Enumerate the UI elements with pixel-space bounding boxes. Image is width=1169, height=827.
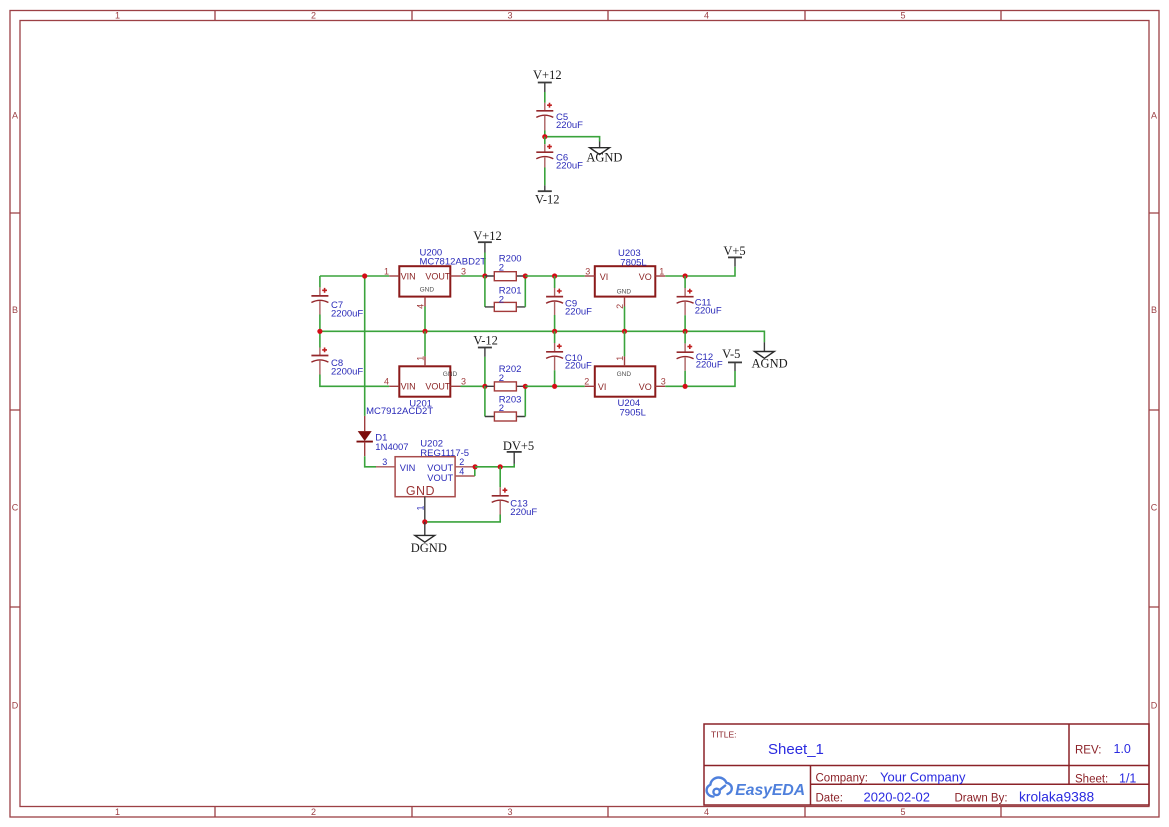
resistor R201 xyxy=(485,285,525,311)
svg-text:Your Company: Your Company xyxy=(880,770,966,785)
svg-text:1: 1 xyxy=(115,11,120,21)
svg-text:MC7912ACD2T: MC7912ACD2T xyxy=(366,406,433,417)
wire VIN node to D1 xyxy=(364,276,366,416)
junction R left xyxy=(482,273,487,278)
ground AGND (top) xyxy=(586,142,622,165)
svg-text:3: 3 xyxy=(661,377,666,387)
svg-text:220uF: 220uF xyxy=(510,507,537,518)
svg-text:220uF: 220uF xyxy=(556,161,583,172)
junction C10 bottom xyxy=(552,384,557,389)
svg-text:VIN: VIN xyxy=(401,382,416,392)
junction bus C11 xyxy=(683,329,688,334)
capacitor C5 xyxy=(536,103,583,137)
svg-text:V-5: V-5 xyxy=(722,347,740,361)
wire left column top horizontal xyxy=(320,275,389,277)
wire C11 to bus xyxy=(684,315,686,331)
U200 pin 1 xyxy=(384,266,399,276)
wire pin4 to pin2 node xyxy=(474,467,476,476)
svg-text:C: C xyxy=(1151,503,1158,513)
regulator U202 xyxy=(395,438,469,498)
wire U204 VO to V-5 xyxy=(665,371,735,386)
wire C9 to bus xyxy=(554,315,556,331)
svg-text:3: 3 xyxy=(382,457,387,467)
svg-text:Sheet:: Sheet: xyxy=(1075,774,1108,786)
svg-text:A: A xyxy=(1151,110,1157,120)
wire V-12 drop xyxy=(484,357,486,386)
svg-text:Company:: Company: xyxy=(816,773,868,785)
svg-text:2: 2 xyxy=(311,11,316,21)
svg-text:AGND: AGND xyxy=(752,357,788,371)
junction at C5/C6 xyxy=(542,134,547,139)
svg-text:Drawn By:: Drawn By: xyxy=(955,793,1008,805)
power flag V+5 xyxy=(723,244,745,267)
capacitor C10 xyxy=(546,331,592,371)
svg-text:5: 5 xyxy=(900,807,905,817)
U204 pin 1 xyxy=(615,356,625,367)
svg-text:2: 2 xyxy=(311,807,316,817)
U201 pin 3 xyxy=(450,377,466,387)
svg-text:Sheet_1: Sheet_1 xyxy=(768,741,824,758)
capacitor C11 xyxy=(677,276,722,316)
svg-text:VO: VO xyxy=(639,382,652,392)
svg-text:1.0: 1.0 xyxy=(1114,742,1131,756)
svg-text:MC7812ABD2T: MC7812ABD2T xyxy=(420,256,487,267)
junction bus C7 xyxy=(317,329,322,334)
junction U202 VOUT xyxy=(473,464,478,469)
power flag V+12 (top) xyxy=(533,68,562,92)
resistor R203 xyxy=(485,395,525,421)
diode D1 xyxy=(357,416,409,456)
power flag V+12 (mid) xyxy=(473,229,502,253)
wire R203 right vertical xyxy=(524,386,526,416)
wire C6 to V-12 xyxy=(544,168,546,186)
wire R to U203 xyxy=(525,275,585,277)
svg-text:VOUT: VOUT xyxy=(427,473,453,483)
junction R202 right xyxy=(523,384,528,389)
EasyEDA logo cloud xyxy=(707,778,732,797)
svg-text:VIN: VIN xyxy=(401,271,416,281)
U204 pin 2 xyxy=(584,377,595,387)
svg-text:5: 5 xyxy=(900,11,905,21)
junction bus C9 xyxy=(552,329,557,334)
svg-text:7805L: 7805L xyxy=(620,257,646,268)
wire C10 to bottom row xyxy=(554,370,556,386)
svg-text:D: D xyxy=(1151,700,1158,710)
junction bus U203 GND xyxy=(622,329,627,334)
wire C12 to bottom row xyxy=(684,371,686,387)
svg-text:220uF: 220uF xyxy=(695,305,722,316)
wire C7 to bus xyxy=(319,315,321,332)
svg-text:2: 2 xyxy=(584,377,589,387)
capacitor C9 xyxy=(546,276,592,317)
svg-text:3: 3 xyxy=(461,266,466,276)
resistor R200 xyxy=(485,253,525,280)
junction C12 bottom xyxy=(683,384,688,389)
wire left column vertical above C7 xyxy=(319,276,321,287)
svg-text:GND: GND xyxy=(420,286,435,293)
capacitor C8 xyxy=(311,348,363,378)
junction DGND xyxy=(422,519,427,524)
svg-text:2: 2 xyxy=(499,295,504,306)
U202 pin 4 xyxy=(455,466,475,476)
svg-text:VIN: VIN xyxy=(400,463,416,473)
svg-text:3: 3 xyxy=(585,266,590,276)
svg-text:2: 2 xyxy=(499,373,504,384)
frame column ticks bottom xyxy=(215,807,1001,818)
wire U201 VOUT to R202 junction xyxy=(461,385,485,387)
wire U200 GND to bus xyxy=(424,307,426,332)
svg-text:4: 4 xyxy=(459,466,464,476)
wire C5 to junction xyxy=(544,131,546,137)
U200 pin 3 xyxy=(450,266,466,276)
svg-text:REV:: REV: xyxy=(1075,745,1101,757)
svg-text:1/1: 1/1 xyxy=(1119,772,1136,786)
junction bus U200 GND xyxy=(422,329,427,334)
U202 pin 1 GND xyxy=(415,497,425,522)
svg-text:220uF: 220uF xyxy=(696,360,723,371)
svg-text:A: A xyxy=(12,110,18,120)
wire V+12 to C5 xyxy=(544,92,546,103)
svg-text:V-12: V-12 xyxy=(473,334,498,348)
wire U200 VOUT to R junction xyxy=(461,275,485,277)
power flag V-12 (top chain) xyxy=(535,185,560,206)
ground DGND xyxy=(411,522,447,555)
wire AGND bus xyxy=(320,331,765,342)
U201 pin 1 xyxy=(416,356,426,367)
svg-text:D: D xyxy=(12,700,19,710)
svg-text:1N4007: 1N4007 xyxy=(375,442,408,453)
capacitor C13 xyxy=(492,467,538,518)
svg-text:220uF: 220uF xyxy=(565,360,592,371)
regulator U200 xyxy=(399,248,486,297)
U200 pin 4 xyxy=(416,297,426,309)
wire R202 to U204 xyxy=(525,385,585,387)
regulator U203 xyxy=(595,248,656,296)
title block title row divider xyxy=(704,765,1149,767)
svg-text:GND: GND xyxy=(617,371,632,378)
frame column ticks top xyxy=(215,11,1001,21)
svg-text:V+12: V+12 xyxy=(533,68,562,82)
svg-text:4: 4 xyxy=(384,377,389,387)
wire D1 to U202 VIN xyxy=(365,456,376,467)
svg-text:VI: VI xyxy=(600,272,609,282)
wire C8 to bottom row xyxy=(320,375,389,387)
wire VOUT node to DV+5 xyxy=(475,464,514,467)
wire U203 VO to V+5 xyxy=(665,267,735,276)
wire R203 left vertical xyxy=(484,386,486,416)
regulator U204 xyxy=(595,366,656,418)
junction U200 VIN xyxy=(362,273,367,278)
svg-text:GND: GND xyxy=(617,289,632,296)
wire junction to C6 xyxy=(544,137,546,145)
wire U203 GND to bus xyxy=(624,307,626,332)
svg-text:GND: GND xyxy=(443,371,458,378)
svg-text:AGND: AGND xyxy=(586,151,622,165)
svg-text:V-12: V-12 xyxy=(535,193,560,207)
U204 pin 3 xyxy=(655,377,666,387)
svg-text:2200uF: 2200uF xyxy=(331,309,363,320)
U203 pin 3 xyxy=(585,266,595,276)
svg-text:B: B xyxy=(1151,305,1157,315)
svg-text:TITLE:: TITLE: xyxy=(711,730,737,740)
svg-text:3: 3 xyxy=(461,377,466,387)
svg-text:1: 1 xyxy=(384,266,389,276)
svg-text:1: 1 xyxy=(115,807,120,817)
capacitor C12 xyxy=(677,331,723,371)
svg-text:3: 3 xyxy=(507,11,512,21)
svg-text:2020-02-02: 2020-02-02 xyxy=(864,790,931,805)
svg-text:2: 2 xyxy=(499,403,504,414)
capacitor C7 xyxy=(311,287,363,319)
svg-text:V+12: V+12 xyxy=(473,229,502,243)
svg-text:GND: GND xyxy=(406,484,435,498)
wire bus to C8 xyxy=(319,331,321,347)
svg-text:VOUT: VOUT xyxy=(427,463,453,473)
ground AGND (right) xyxy=(752,342,788,370)
svg-text:7905L: 7905L xyxy=(620,408,646,419)
svg-text:B: B xyxy=(12,305,18,315)
svg-text:VI: VI xyxy=(598,382,607,392)
svg-text:220uF: 220uF xyxy=(565,306,592,317)
junction C9 top xyxy=(552,273,557,278)
svg-text:1: 1 xyxy=(615,356,625,361)
svg-text:VOUT: VOUT xyxy=(425,382,451,392)
capacitor C6 xyxy=(536,144,583,171)
svg-text:krolaka9388: krolaka9388 xyxy=(1019,790,1094,805)
title block company/date divider xyxy=(811,783,1150,785)
wire C13 to DGND node xyxy=(425,515,500,522)
wire R201 right vertical xyxy=(524,276,526,307)
U201 pin 4 xyxy=(384,377,399,387)
U202 pin 2 xyxy=(455,457,473,467)
svg-text:1: 1 xyxy=(415,505,425,510)
svg-text:DV+5: DV+5 xyxy=(503,439,534,453)
U202 pin 3 xyxy=(376,457,395,467)
svg-text:2200uF: 2200uF xyxy=(331,367,363,378)
wire bus to U204 GND xyxy=(624,331,626,356)
U203 pin 2 xyxy=(615,297,625,309)
title block outline xyxy=(704,724,1149,805)
junction C11 top xyxy=(683,273,688,278)
frame row ticks left xyxy=(10,213,20,607)
resistor R202 xyxy=(485,364,525,391)
svg-text:VO: VO xyxy=(639,272,652,282)
svg-text:V+5: V+5 xyxy=(723,244,745,258)
junction R202 left xyxy=(482,384,487,389)
junction R right xyxy=(523,273,528,278)
svg-text:4: 4 xyxy=(704,11,709,21)
svg-text:2: 2 xyxy=(459,457,464,467)
svg-text:C: C xyxy=(12,503,19,513)
junction C13 top xyxy=(498,464,503,469)
svg-text:VOUT: VOUT xyxy=(425,271,451,281)
svg-text:2: 2 xyxy=(499,263,504,274)
wire R201 left vertical xyxy=(484,276,486,307)
svg-text:EasyEDA: EasyEDA xyxy=(735,782,805,799)
svg-text:220uF: 220uF xyxy=(556,120,583,131)
title block rev column divider xyxy=(1068,724,1070,784)
wire V+12 drop xyxy=(484,253,486,277)
wire bus to U201 GND xyxy=(424,331,426,356)
power flag V-12 (mid) xyxy=(473,334,498,357)
svg-text:1: 1 xyxy=(416,356,426,361)
power flag V-5 xyxy=(722,347,742,371)
svg-text:4: 4 xyxy=(416,304,426,309)
svg-text:Date:: Date: xyxy=(816,793,844,805)
svg-text:2: 2 xyxy=(615,304,625,309)
frame row ticks right xyxy=(1149,213,1159,607)
svg-text:DGND: DGND xyxy=(411,541,447,555)
wire junction to AGND branch xyxy=(545,137,600,142)
U203 pin 1 xyxy=(655,266,665,276)
title block logo cell divider xyxy=(810,766,812,806)
svg-text:1: 1 xyxy=(659,266,664,276)
power flag DV+5 xyxy=(503,439,534,464)
regulator U201 xyxy=(366,366,457,417)
svg-text:3: 3 xyxy=(507,807,512,817)
svg-text:4: 4 xyxy=(704,807,709,817)
